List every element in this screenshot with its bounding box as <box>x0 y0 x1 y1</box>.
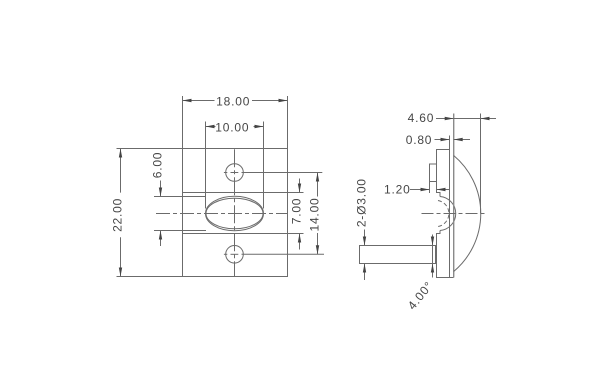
arrow 18.00 right <box>279 99 288 102</box>
bottom circle centerline with extension <box>224 253 227 255</box>
dome arc <box>454 156 481 272</box>
arrow 0.80 left <box>441 138 450 141</box>
hidden lens arc dashed <box>438 201 449 227</box>
dimension 4.60 extension line <box>480 114 482 214</box>
svg-text:6.00: 6.00 <box>151 152 165 179</box>
plate back face <box>449 136 451 278</box>
svg-text:2-Ø3.00: 2-Ø3.00 <box>355 178 369 227</box>
vertical centerline <box>234 149 236 276</box>
svg-text:10.00: 10.00 <box>215 121 249 135</box>
pin outline <box>360 246 436 264</box>
svg-text:1.20: 1.20 <box>384 183 411 197</box>
arrow 22.00 bottom <box>119 268 122 277</box>
dimension 10.00 extension lines <box>205 122 207 209</box>
plate front face <box>453 114 455 278</box>
svg-text:18.00: 18.00 <box>216 95 250 109</box>
arrow 14.00 top <box>316 173 319 182</box>
arrow 6.00 bottom <box>159 231 162 240</box>
top circle centerline <box>224 172 227 174</box>
dimension 0.80 extension line <box>449 136 451 149</box>
dimension 0.80 line <box>435 139 450 141</box>
arrow 14.00 bottom <box>316 245 319 254</box>
svg-text:4.60: 4.60 <box>408 111 435 125</box>
dimension 18.00 line <box>183 100 215 102</box>
arrow 10.00 left <box>206 125 215 128</box>
groove bottom line <box>183 233 288 235</box>
dimension 6.00 line <box>160 181 162 197</box>
dimension 4.60 line <box>436 118 454 120</box>
arrow 4.00deg top <box>431 237 434 246</box>
arrow 0.80 right <box>454 138 463 141</box>
arrow 4.00deg bottom <box>431 264 434 273</box>
groove top line <box>183 192 288 194</box>
dimension 6.00 extension lines <box>154 196 206 198</box>
svg-text:7.00: 7.00 <box>290 198 304 225</box>
dimension 14.00 line <box>317 173 319 197</box>
dimension 10.00 line <box>206 126 216 128</box>
top circle centerline extension <box>242 172 323 174</box>
lens hole ellipse outer <box>206 196 264 231</box>
arrow 22.00 top <box>119 149 122 158</box>
arrow 4.60 right <box>481 117 490 120</box>
dimension 7.00 extension lines <box>288 192 304 194</box>
svg-text:0.80: 0.80 <box>406 133 433 147</box>
step2 box <box>430 164 437 182</box>
hole circle top <box>226 164 244 182</box>
arrow 4.60 left <box>445 117 454 120</box>
dimension 22.00 extension lines <box>117 148 183 150</box>
dimension 2-dia3.00 line <box>364 230 366 246</box>
arrow dia3.00 bottom <box>363 264 366 273</box>
arrow dia3.00 top <box>363 237 366 246</box>
step2 extension line <box>429 182 431 194</box>
horizontal lens centerline <box>156 213 288 215</box>
arrow 7.00 top <box>298 184 301 193</box>
side boss outline lower <box>437 231 454 278</box>
arrow 18.00 left <box>183 99 192 102</box>
lens rim ellipse inner <box>206 198 263 229</box>
lens axis centerline <box>422 213 488 215</box>
dimension 22.00 line <box>120 149 122 193</box>
arrow 1.20 left <box>421 188 430 191</box>
arrow 6.00 top <box>159 188 162 197</box>
dimension 1.20 line <box>410 189 430 191</box>
arrow 1.20 right <box>437 188 446 191</box>
dimension 18.00 extension lines <box>182 96 184 149</box>
hole circle bottom <box>226 246 244 264</box>
arrow 7.00 bottom <box>298 234 301 243</box>
front plate outline <box>183 149 288 277</box>
side lens dome arc <box>440 197 456 231</box>
dimension 7.00 line <box>299 179 301 193</box>
svg-text:4.00°: 4.00° <box>405 279 436 313</box>
side boss outline upper <box>437 150 450 197</box>
svg-text:14.00: 14.00 <box>308 197 322 231</box>
dimension 4.00deg line <box>432 235 434 278</box>
arrow 10.00 right <box>255 125 264 128</box>
svg-text:22.00: 22.00 <box>111 198 125 232</box>
